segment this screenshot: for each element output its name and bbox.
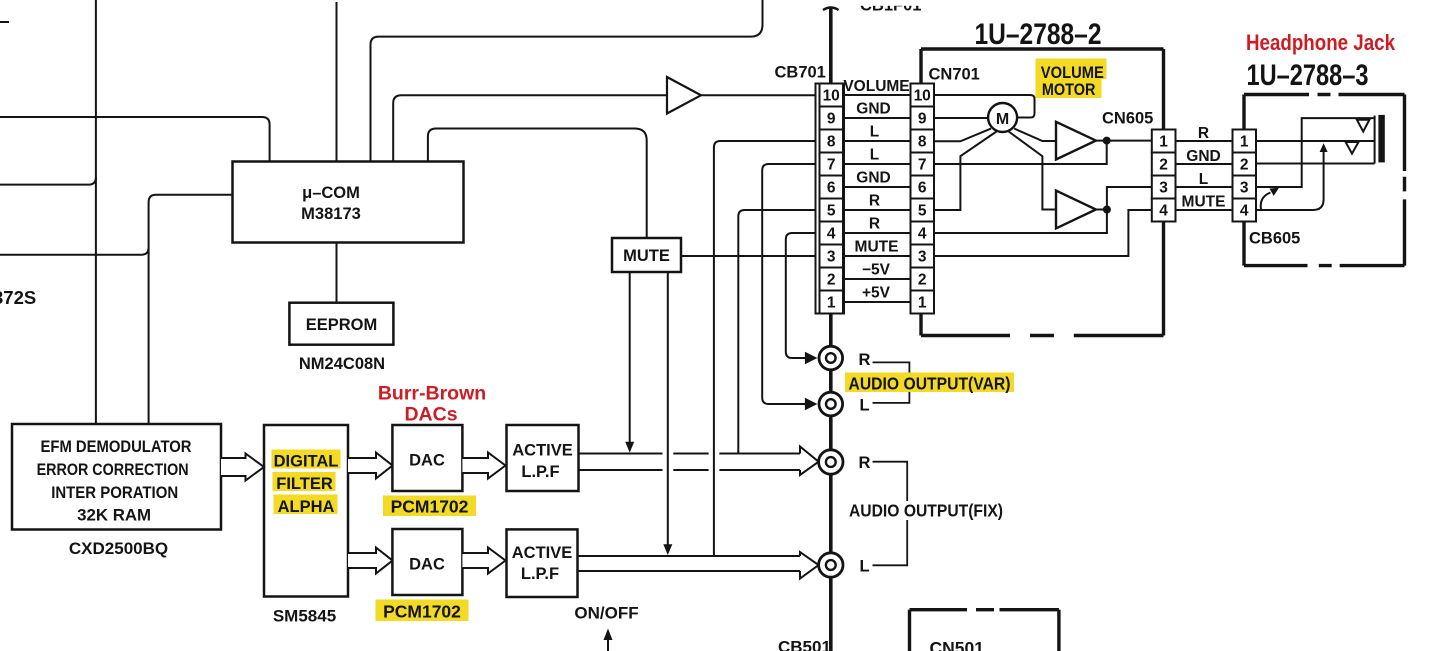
- svg-text:32K RAM: 32K RAM: [77, 507, 151, 525]
- block arrow DAC2 to LPF2: [462, 548, 505, 574]
- svg-text:MUTE: MUTE: [855, 239, 899, 256]
- svg-text:Headphone Jack: Headphone Jack: [1246, 30, 1396, 55]
- thick board line segments: [829, 314, 833, 651]
- digital filter block SM5845: [264, 425, 348, 597]
- block arrow filter to DAC1: [348, 453, 393, 479]
- wire amp1 output to CN605 pin1: [1096, 140, 1152, 142]
- block arrow head FIX R to jack: [800, 447, 819, 476]
- svg-text:7: 7: [827, 157, 836, 174]
- svg-text:5: 5: [827, 203, 836, 220]
- svg-text:7: 7: [918, 157, 927, 174]
- label R FIX with bracket: [859, 454, 908, 576]
- MUTE block: [612, 238, 681, 272]
- wires CB701 to CN701: [843, 95, 911, 302]
- wire vertical V1 to EFM demodulator: [95, 0, 97, 424]
- connector CB605: [1233, 130, 1257, 222]
- svg-text:R: R: [869, 216, 880, 233]
- svg-text:8: 8: [827, 134, 836, 151]
- label R VAR with bracket: [859, 351, 910, 415]
- junction dot amp1: [1103, 137, 1111, 145]
- wire MUTE output 1 with arrow: [625, 272, 634, 453]
- svg-text:CN701: CN701: [929, 66, 980, 84]
- junction dot amp2: [1103, 206, 1111, 214]
- block arrow head FIX L to jack: [800, 552, 819, 579]
- active LPF1 block: [507, 425, 579, 491]
- svg-text:9: 9: [918, 111, 927, 128]
- EEPROM block: [289, 303, 393, 345]
- svg-text:4: 4: [1240, 203, 1249, 220]
- highlight AUDIO OUTPUT VAR: [845, 373, 1014, 393]
- wire u-COM to EEPROM: [336, 243, 338, 304]
- highlight PCM1702 top: [383, 496, 476, 517]
- svg-text:4: 4: [827, 226, 836, 243]
- wire CN701 pin8 with diagonal to motor: [934, 129, 991, 142]
- svg-text:6: 6: [827, 180, 836, 197]
- headphone jack contact triangle 1: [1357, 120, 1370, 132]
- wire CB605 pin1 R to jack: [1256, 140, 1375, 142]
- wire CB605 pin2 GND to jack: [1256, 163, 1375, 165]
- diagonal motor down to amp2 input: [1009, 132, 1056, 210]
- wire MUTE output 2 with arrow: [663, 272, 672, 555]
- wire from u-COM to MUTE block: [428, 129, 647, 238]
- svg-text:1U–2788–2: 1U–2788–2: [975, 18, 1102, 51]
- RCA jack VAR L: [819, 392, 843, 416]
- svg-text:EFM DEMODULATOR: EFM DEMODULATOR: [41, 438, 192, 456]
- svg-text:L.P.F: L.P.F: [521, 565, 559, 583]
- svg-text:MUTE: MUTE: [1182, 194, 1226, 211]
- svg-text:CXD2500BQ: CXD2500BQ: [69, 539, 168, 558]
- svg-text:L: L: [859, 397, 869, 415]
- svg-text:3: 3: [1159, 180, 1168, 197]
- svg-text:3: 3: [1240, 180, 1249, 197]
- svg-text:1: 1: [827, 295, 836, 312]
- svg-text:FILTER: FILTER: [276, 475, 333, 493]
- svg-text:PCM1702: PCM1702: [383, 602, 461, 622]
- wire CB605 pin4 MUTE with up arrow to R: [1256, 143, 1328, 210]
- RCA jack FIX R: [819, 450, 843, 474]
- svg-text:GND: GND: [856, 101, 890, 118]
- u-COM block: [233, 162, 464, 243]
- svg-text:CN501: CN501: [930, 638, 985, 651]
- block arrow filter to DAC2: [348, 548, 393, 574]
- svg-text:ON/OFF: ON/OFF: [574, 604, 638, 623]
- svg-text:L: L: [870, 147, 879, 164]
- svg-text:10: 10: [823, 88, 840, 105]
- wire from u-COM top exiting top edge: [371, 0, 763, 163]
- svg-text:MOTOR: MOTOR: [1042, 81, 1096, 99]
- svg-text:ERROR CORRECTION: ERROR CORRECTION: [37, 461, 189, 479]
- active LPF2 block: [507, 529, 578, 597]
- svg-text:M38173: M38173: [301, 205, 361, 223]
- svg-text:L: L: [1199, 171, 1208, 188]
- label AUDIO OUTPUT (FIX): [846, 501, 1006, 521]
- wire amplifier output to CB701 pin10: [701, 94, 820, 96]
- svg-text:MUTE: MUTE: [623, 247, 670, 265]
- headphone amp1 triangle: [1056, 122, 1096, 160]
- svg-text:1U–2788–3: 1U–2788–3: [1247, 59, 1369, 92]
- wire stub top-left: [0, 21, 9, 23]
- diagonal motor to amp1 input: [1014, 129, 1056, 141]
- volume amplifier triangle: [667, 77, 701, 114]
- svg-text:M: M: [996, 111, 1009, 128]
- label Burr-Brown DACs red annotation: [378, 383, 486, 426]
- svg-text:VOLUME: VOLUME: [1041, 64, 1104, 82]
- digital filter highlight FILTER: [273, 472, 336, 491]
- block arrow DAC1 to LPF1: [462, 453, 505, 479]
- wire CB701 pin7 to VAR L jack: [762, 164, 819, 410]
- wire vertical into u-COM top: [336, 2, 338, 162]
- thick board line top with cap: [823, 8, 839, 85]
- svg-text:L.P.F: L.P.F: [521, 463, 559, 481]
- highlight PCM1702 bottom: [376, 600, 469, 622]
- svg-text:3: 3: [918, 249, 927, 266]
- wire W1 into u-COM top: [0, 117, 270, 163]
- svg-text:Burr-Brown: Burr-Brown: [378, 383, 486, 405]
- svg-text:CB701: CB701: [775, 64, 826, 82]
- wire amp2 output junction to CN605 pin3: [1096, 187, 1152, 210]
- svg-text:10: 10: [914, 88, 931, 105]
- wire FIX R upper line: [579, 453, 801, 455]
- svg-text:1: 1: [1159, 134, 1168, 151]
- svg-text:R: R: [859, 454, 871, 472]
- board box 1U-2788-3: [1244, 95, 1405, 266]
- svg-text:2: 2: [827, 272, 836, 289]
- svg-text:−5V: −5V: [862, 262, 891, 279]
- wire W3 joining V2: [0, 248, 149, 255]
- labels R GND L MUTE: [1182, 125, 1226, 211]
- svg-text:DAC: DAC: [409, 556, 445, 574]
- headphone jack plug bar: [1378, 115, 1384, 162]
- wire W2 joining V1: [0, 177, 96, 184]
- digital filter highlight DIGITAL: [272, 450, 341, 469]
- svg-text:ALPHA: ALPHA: [278, 498, 335, 516]
- svg-text:PCM1702: PCM1702: [391, 497, 469, 517]
- svg-text:372S: 372S: [0, 287, 36, 308]
- svg-text:DAC: DAC: [409, 452, 445, 470]
- DAC1 block: [392, 425, 462, 491]
- connector CB701: [816, 84, 845, 314]
- DAC2 block: [392, 529, 462, 595]
- svg-text:+5V: +5V: [862, 285, 891, 302]
- highlight VOLUME MOTOR: [1036, 59, 1107, 99]
- wire MUTE to CB701 pin3: [681, 255, 820, 257]
- wire amp2 junction down to CN701 pin4: [934, 210, 1107, 234]
- connector CN701: [911, 84, 935, 314]
- headphone jack plug thin line: [1374, 116, 1376, 164]
- WIRES-LEFT: [0, 0, 820, 424]
- wire CN701 pin5 with diagonal to motor: [934, 132, 997, 211]
- wire CN701 pin7 to amp1 output junction: [934, 141, 1107, 164]
- RCA jack FIX L: [819, 553, 843, 577]
- wire FIX L lower line: [579, 570, 801, 572]
- svg-text:L: L: [859, 558, 869, 576]
- svg-text:1: 1: [1240, 134, 1249, 151]
- digital filter highlight ALPHA: [274, 495, 338, 515]
- headphone amp2 triangle: [1056, 191, 1096, 229]
- svg-text:4: 4: [1159, 203, 1168, 220]
- wire FIX R lower line: [579, 469, 801, 471]
- svg-text:2: 2: [1240, 157, 1249, 174]
- svg-text:6: 6: [918, 180, 927, 197]
- svg-text:AUDIO OUTPUT(FIX): AUDIO OUTPUT(FIX): [849, 501, 1003, 521]
- svg-text:CB501: CB501: [778, 638, 831, 651]
- headphone jack contact triangle 2: [1346, 142, 1359, 154]
- svg-text:R: R: [859, 351, 871, 369]
- wire ON/OFF arrow up: [604, 629, 613, 651]
- wire from u-COM to volume amplifier: [393, 95, 667, 163]
- svg-text:4: 4: [918, 226, 927, 243]
- svg-text:DIGITAL: DIGITAL: [274, 453, 339, 471]
- svg-text:9: 9: [827, 111, 836, 128]
- svg-text:DACs: DACs: [404, 404, 457, 426]
- wire CN701 pin3 to CN605 pin4: [934, 210, 1152, 256]
- svg-text:AUDIO OUTPUT(VAR): AUDIO OUTPUT(VAR): [849, 374, 1011, 394]
- svg-text:GND: GND: [856, 170, 890, 187]
- row labels between connectors: [843, 78, 909, 302]
- svg-text:8: 8: [918, 134, 927, 151]
- svg-text:EEPROM: EEPROM: [306, 316, 378, 334]
- wire CB605 pin3 L up and over to jack tip: [1256, 118, 1375, 187]
- svg-text:VOLUME: VOLUME: [843, 78, 909, 95]
- wire CB701 pin8 down to FIX L: [714, 141, 820, 556]
- svg-text:ACTIVE: ACTIVE: [512, 442, 573, 460]
- svg-text:NM24C08N: NM24C08N: [299, 355, 385, 373]
- svg-text:R: R: [1198, 125, 1209, 142]
- svg-text:CB605: CB605: [1249, 230, 1300, 248]
- connector CN501 dashed box: [910, 610, 1059, 651]
- RCA jack VAR R: [819, 346, 843, 370]
- wires CN605 to CB605: [1176, 141, 1233, 210]
- label VOLUME MOTOR: [1041, 64, 1104, 99]
- svg-text:GND: GND: [1186, 148, 1220, 165]
- svg-text:INTER PORATION: INTER PORATION: [51, 484, 178, 502]
- svg-text:2: 2: [1159, 157, 1168, 174]
- wire CN701 pin10 to motor right: [934, 95, 1035, 118]
- svg-text:ACTIVE: ACTIVE: [512, 544, 573, 562]
- wire vertical V2 from u-COM to EFM demodulator: [149, 195, 233, 424]
- EFM demodulator block CXD2500BQ: [12, 424, 221, 530]
- block arrow EFM to digital filter: [221, 454, 264, 481]
- svg-text:SM5845: SM5845: [273, 607, 336, 626]
- wire CB701 pin4 to VAR R jack: [786, 233, 820, 364]
- wire CN701 pin9 to motor left: [934, 117, 988, 119]
- svg-text:L: L: [870, 124, 879, 141]
- svg-text:R: R: [869, 193, 880, 210]
- connector CN605: [1152, 130, 1176, 222]
- svg-text:CN605: CN605: [1102, 110, 1153, 128]
- svg-text:μ–COM: μ–COM: [302, 184, 360, 202]
- svg-text:5: 5: [918, 203, 927, 220]
- svg-text:2: 2: [918, 272, 927, 289]
- motor M: [988, 103, 1017, 132]
- svg-text:3: 3: [827, 249, 836, 266]
- svg-text:1: 1: [918, 295, 927, 312]
- small curved arrow MUTE to L: [1261, 188, 1279, 210]
- wire FIX L upper line: [579, 555, 801, 557]
- board box 1U-2788-2: [921, 49, 1164, 336]
- wire CB701 pin5 down to FIX R: [738, 210, 819, 454]
